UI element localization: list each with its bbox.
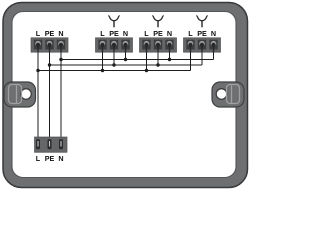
svg-text:L: L [188,29,193,38]
svg-text:N: N [167,29,172,38]
svg-text:PE: PE [109,29,119,38]
svg-text:L: L [144,29,149,38]
svg-text:N: N [58,154,63,163]
svg-text:PE: PE [153,29,163,38]
svg-text:PE: PE [45,29,55,38]
svg-text:N: N [123,29,128,38]
svg-text:L: L [100,29,105,38]
svg-text:PE: PE [197,29,207,38]
svg-text:PE: PE [45,154,55,163]
svg-text:N: N [211,29,216,38]
svg-text:L: L [36,154,41,163]
svg-text:N: N [58,29,63,38]
svg-text:L: L [36,29,41,38]
